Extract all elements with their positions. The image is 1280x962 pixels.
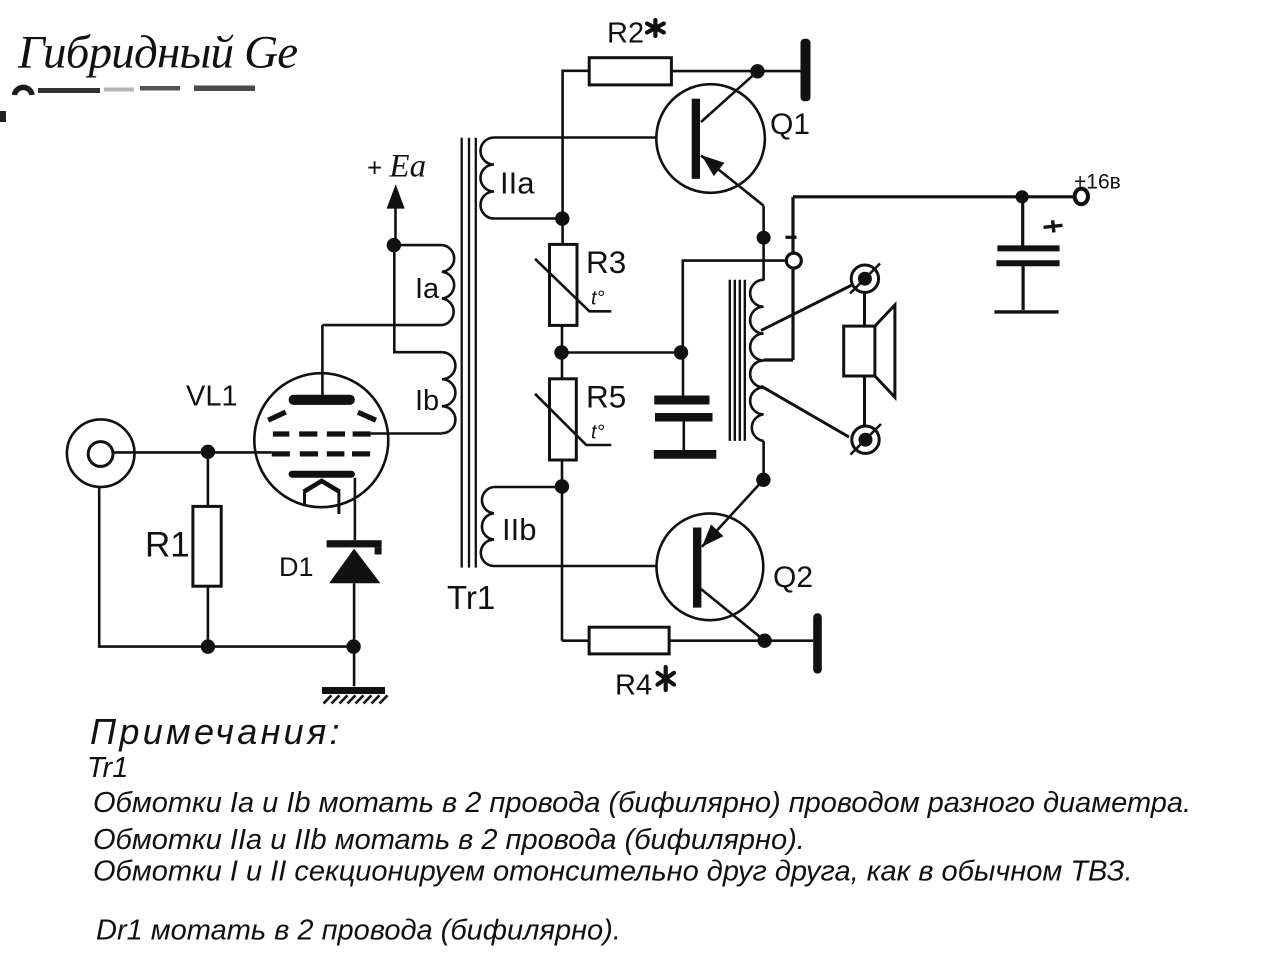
tube anode plate: [289, 395, 355, 405]
svg-text:R2: R2: [607, 18, 644, 50]
winding Ia: [322, 245, 454, 325]
speaker: [844, 292, 895, 426]
tube cathode lead: [354, 478, 357, 540]
ground: [322, 687, 388, 704]
svg-text:R4: R4: [615, 670, 652, 702]
wire choke tap to speaker top terminal: [761, 285, 853, 331]
node +16 / cap: [1016, 190, 1029, 203]
node IIa / R2 / R3: [555, 211, 569, 225]
svg-text:+ Ea: + Ea: [367, 149, 426, 185]
chassis bar near Q1: [801, 39, 811, 102]
svg-text:Гибридный Ge: Гибридный Ge: [17, 27, 297, 79]
node R2 / Q1 collector: [750, 64, 764, 78]
transistor Q1: [656, 71, 765, 205]
speaker top terminal: [850, 264, 880, 294]
node D1 / bottom rail: [346, 639, 360, 653]
transistor Q2: [657, 480, 765, 641]
title: [17, 27, 297, 79]
wire cap node up and right to connector: [681, 261, 787, 353]
svg-text:t°: t°: [591, 288, 605, 310]
winding Dr1: [750, 280, 763, 441]
wire Ea node down to Ib lead: [394, 245, 442, 352]
svg-text:Обмотки I и II секционируем от: Обмотки I и II секционируем отонсительно…: [93, 856, 1133, 888]
wire bottom rail: [208, 645, 354, 648]
thermistor R5: [535, 379, 611, 460]
tube cathode bar: [289, 471, 355, 478]
tube grid row 3 dashes: [272, 451, 370, 456]
node Q2 emitter / choke: [756, 473, 770, 487]
tube anode lead: [321, 325, 324, 396]
capacitor C2 polarity plus: [1043, 219, 1063, 233]
tube grid row 2 dashes: [273, 431, 371, 436]
connector open circle on rail: [786, 253, 801, 268]
wire choke bottom to Q2 emitter node: [762, 441, 765, 480]
svg-text:t°: t°: [591, 422, 605, 444]
svg-text:Q2: Q2: [773, 561, 813, 594]
capacitor C2: [994, 197, 1059, 312]
svg-text:IIb: IIb: [502, 512, 536, 547]
node Q2 collector / R4: [757, 634, 771, 648]
erased second title line remnant: [0, 86, 255, 123]
wire R5 to IIb node: [561, 460, 564, 641]
svg-text:D1: D1: [279, 552, 314, 582]
thermistor R3: [535, 244, 611, 325]
chassis bar near Q2: [813, 613, 822, 673]
node input/R1: [201, 445, 215, 459]
winding Ib: [442, 352, 456, 433]
resistor R1: [193, 452, 221, 646]
input connector J1: [67, 419, 135, 487]
svg-text:Ia: Ia: [415, 273, 440, 305]
svg-text:Tr1: Tr1: [87, 752, 128, 784]
resistor R4: [562, 627, 813, 654]
speaker bottom terminal: [851, 424, 882, 455]
wire input to grid node: [113, 451, 272, 454]
zener diode D1: [327, 540, 382, 686]
svg-text:Обмотки IIa и IIb мотать в 2 п: Обмотки IIa и IIb мотать в 2 провода (би…: [93, 824, 805, 856]
node bottom rail / R1: [201, 639, 215, 653]
svg-text:Обмотки Ia и Ib мотать в 2 про: Обмотки Ia и Ib мотать в 2 провода (бифи…: [93, 787, 1191, 819]
winding IIa: [481, 138, 657, 219]
node on emitter wire: [757, 231, 771, 245]
+16v rail: [764, 197, 1075, 360]
svg-text:Примечания:: Примечания:: [90, 711, 343, 752]
tube heater: [304, 481, 340, 492]
svg-text:R5: R5: [586, 379, 626, 415]
svg-text:R3: R3: [586, 244, 626, 280]
node R3/R5: [554, 345, 568, 359]
node capacitor top: [674, 345, 688, 359]
wire Q1 emitter down to choke: [762, 206, 765, 281]
svg-text:VL1: VL1: [186, 381, 238, 413]
transformer Tr1 core: [462, 138, 476, 568]
tube screen grid dashes: [268, 412, 376, 420]
svg-text:Q1: Q1: [770, 108, 810, 141]
wire mid node to capacitor: [562, 351, 682, 354]
capacitor C1: [654, 353, 717, 455]
resistor R2: [563, 58, 801, 245]
svg-text:Tr1: Tr1: [447, 579, 495, 616]
wire choke tap to speaker bottom terminal: [761, 386, 849, 437]
winding IIb: [481, 487, 657, 566]
wire connector down: [99, 487, 208, 647]
supply arrow +Ea: [387, 184, 405, 245]
svg-text:Dr1 мотать в 2 провода (бифиля: Dr1 мотать в 2 провода (бифилярно).: [96, 915, 621, 947]
node IIb / R5 / R4: [555, 479, 569, 493]
wire grid row2 to Ib winding: [371, 432, 442, 435]
svg-text:R1: R1: [145, 525, 190, 564]
svg-text:Ib: Ib: [415, 385, 439, 417]
wire R3 to R5: [561, 325, 564, 378]
terminal +16v: [1075, 189, 1088, 205]
svg-text:+16в: +16в: [1074, 171, 1121, 194]
tube VL1 envelope: [254, 373, 388, 507]
choke Dr1 core: [730, 280, 745, 441]
svg-text:IIa: IIa: [500, 166, 535, 201]
node Ea / Ia / Ib: [387, 238, 401, 252]
